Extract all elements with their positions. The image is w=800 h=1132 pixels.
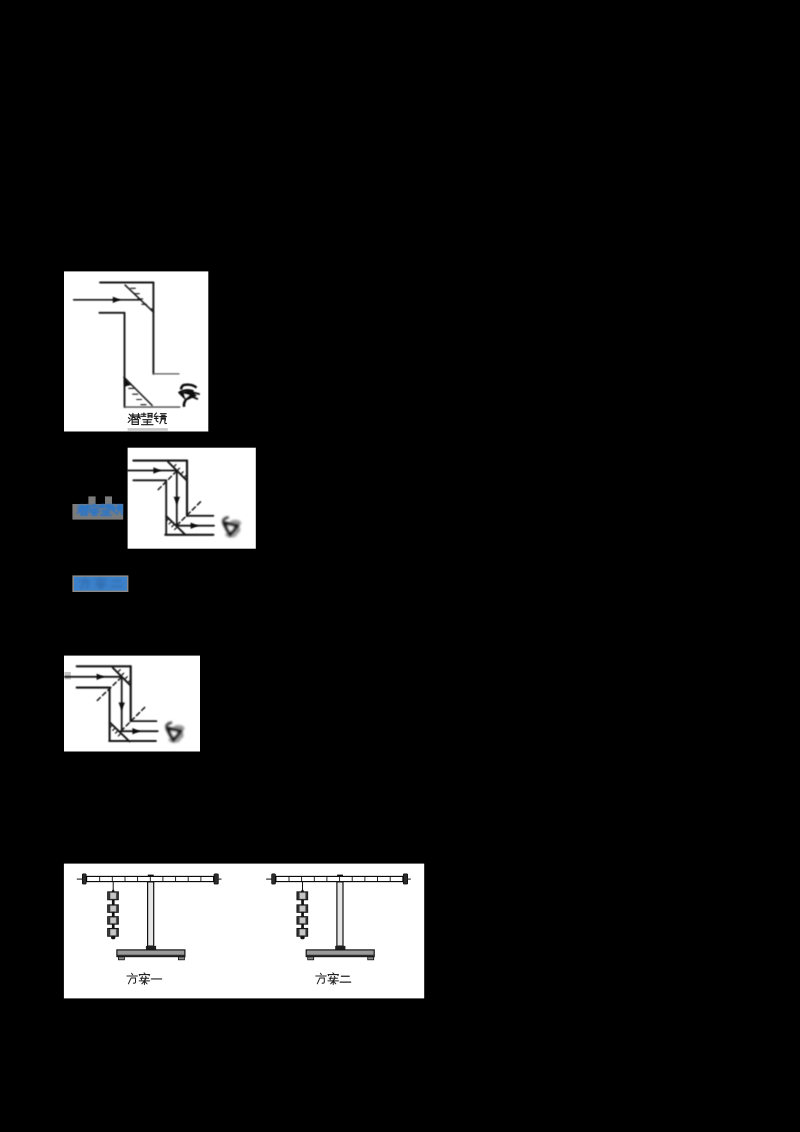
observer eye blob <box>166 723 185 743</box>
hanger string <box>112 882 114 889</box>
label: 方 (scheme 2) <box>316 973 326 983</box>
right tube wall <box>130 666 132 721</box>
mirror M2 (bottom 45 deg) <box>124 377 152 405</box>
vertical ray arrowhead <box>119 703 125 711</box>
right end cap <box>214 874 218 884</box>
dark char hint 1 <box>80 578 90 588</box>
label: 案 (scheme 1) <box>139 973 149 985</box>
link knob 2 <box>112 912 115 916</box>
mirror M2 top wedge <box>124 378 131 387</box>
inner tube wall top <box>99 312 124 314</box>
label: 望 <box>141 413 153 425</box>
bottom tube edge <box>109 740 156 742</box>
support pole <box>148 882 154 946</box>
observer eye blob <box>223 517 242 537</box>
left foot <box>118 957 124 960</box>
right tube wall <box>186 461 188 516</box>
pole-base connector <box>146 946 156 950</box>
mirror M2 hatching <box>110 725 121 736</box>
bottom knob <box>111 936 115 939</box>
exit ray <box>176 525 214 527</box>
weight 2 <box>108 905 119 912</box>
blue char 1 <box>78 505 89 515</box>
label: 案 (scheme 2) <box>328 973 338 985</box>
figure panel 2: periscope answer ray diagram <box>128 448 256 549</box>
exit ray arrowhead <box>191 523 199 529</box>
gray mark at ray start <box>64 672 71 680</box>
observer eye icon <box>179 385 200 407</box>
mirror M1 <box>113 668 131 686</box>
pivot cap <box>148 875 154 877</box>
figure panel 1: periscope question <box>64 271 208 431</box>
dark char hint 3 <box>112 581 122 587</box>
blue char 2 <box>89 504 99 516</box>
weight 4 <box>108 929 119 937</box>
inner tube wall <box>133 479 166 481</box>
reflected vertical ray <box>121 677 123 731</box>
right axle stub <box>218 878 221 880</box>
mirror M1 (top 45 deg) <box>125 285 153 312</box>
ruler beam <box>87 876 214 881</box>
incident ray 1 <box>65 676 122 678</box>
top tube wall <box>100 282 153 284</box>
weight 3 <box>108 917 119 924</box>
ruler ticks <box>100 876 201 881</box>
balance apparatus 2 <box>266 874 411 960</box>
blue selected block <box>72 575 128 592</box>
blue char 4 <box>111 504 122 514</box>
link knob 1 <box>112 900 115 905</box>
right tube wall <box>152 283 154 374</box>
bottom tube edge <box>165 534 213 536</box>
dashed normal at M1 <box>157 471 177 491</box>
vertical ray arrowhead <box>174 497 180 505</box>
left tube wall <box>109 688 111 741</box>
exit opening top edge <box>187 515 213 517</box>
ray 1 arrowhead <box>97 674 105 680</box>
top tube wall <box>133 460 187 462</box>
left end cap <box>82 874 86 884</box>
figure panel 4: two balance setups <box>64 864 424 999</box>
base bottom shade <box>117 955 184 957</box>
right foot <box>178 957 184 960</box>
link knob 3 <box>112 924 115 928</box>
inner tube wall <box>77 687 110 689</box>
mirror M1 hatching <box>118 670 131 683</box>
hanger hook <box>112 888 115 892</box>
ray 1 arrowhead <box>153 467 161 473</box>
exit opening top edge <box>153 373 179 375</box>
weight 1 <box>108 892 119 900</box>
ray arrowhead <box>113 297 121 303</box>
dashed normal at M2 <box>177 500 203 526</box>
mirror M2 <box>166 516 185 535</box>
left tube wall <box>124 313 126 407</box>
gray highlight box with blue text <box>72 504 123 520</box>
label: 潜 <box>128 413 140 424</box>
mirror M1 <box>168 462 187 481</box>
bottom tube edge <box>125 406 180 408</box>
left tube wall <box>165 480 167 534</box>
mirror M2 hatching <box>129 388 146 404</box>
reflected vertical ray <box>176 471 178 526</box>
balance apparatus 1 <box>77 874 222 960</box>
label: 一 (scheme 1) <box>151 974 161 984</box>
top tube wall <box>77 665 131 667</box>
incident light ray <box>74 299 140 301</box>
left axle stub <box>77 878 83 880</box>
gray underline band <box>128 428 168 431</box>
mirror M2 hatching <box>166 519 177 530</box>
label: 二 (scheme 2) <box>340 976 350 982</box>
label: 镜 <box>154 413 166 424</box>
exit opening top edge <box>131 720 157 722</box>
figure panel 3: periscope answer ray diagram 2 <box>64 656 200 752</box>
label: 方 (scheme 1) <box>127 973 137 983</box>
mirror M2 <box>110 722 130 741</box>
incident ray 1 <box>128 470 177 472</box>
blue char 3 <box>100 504 111 515</box>
highlight tab 1 <box>88 496 95 504</box>
mirror M1 hatching <box>131 288 154 309</box>
dashed normal at M2 <box>121 706 146 731</box>
mirror M1 hatching <box>173 465 186 478</box>
dark char hint 2 <box>96 578 106 589</box>
base slab <box>117 950 185 957</box>
highlight tab 2 <box>105 496 112 504</box>
exit ray <box>121 730 158 732</box>
dashed normal at M1 <box>97 677 121 700</box>
exit ray arrowhead <box>132 728 140 734</box>
